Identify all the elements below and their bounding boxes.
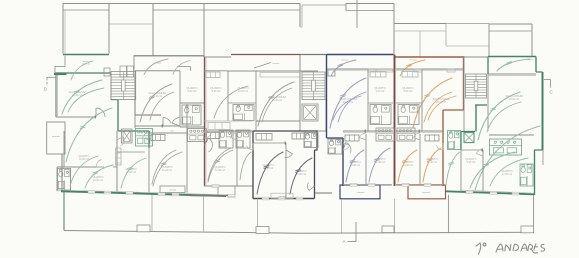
door sala unit2 left — [163, 117, 171, 126]
orange living — [432, 97, 449, 104]
dark unit outline — [253, 130, 299, 132]
door orange entry — [436, 143, 443, 150]
elevator right core — [464, 133, 474, 143]
brown top interior wall — [228, 70, 318, 72]
sweep dark2 — [290, 158, 312, 194]
svg-text:9.60 m2: 9.60 m2 — [404, 90, 413, 93]
door dark unit 1 — [285, 150, 293, 158]
orange corridor wall — [396, 130, 443, 132]
blue unit outline — [326, 55, 328, 139]
door brown hall — [205, 138, 213, 152]
handwritten floor note "1º ANDARES" — [476, 243, 545, 254]
patio left green edge — [63, 192, 65, 231]
sweep quarto1 — [85, 165, 113, 188]
stairwell left core — [111, 72, 136, 100]
right patio left edge — [447, 195, 449, 233]
blue top interior wall with sills — [327, 68, 393, 70]
green boundary at core — [475, 105, 477, 132]
door arcs corridor — [142, 133, 149, 140]
box left of unit2 varanda — [120, 66, 127, 77]
elevator left core — [121, 129, 132, 143]
center core top edge — [300, 54, 327, 56]
sweep blue q2 — [369, 148, 390, 182]
terrace middle inset box — [109, 23, 153, 25]
dark unit bottom fixtures — [292, 133, 305, 139]
right green bottom wall — [446, 191, 534, 194]
kitchen green unit — [136, 129, 153, 147]
green unit lower boundary — [61, 191, 226, 196]
sweep orange q1 — [398, 150, 417, 182]
sweep long green right — [475, 126, 540, 190]
sweep green small room — [446, 152, 460, 185]
unit2 terrace edge — [134, 55, 205, 57]
sweep quarto green right — [470, 152, 515, 188]
elevator center core — [302, 104, 318, 121]
wall x149 lower — [148, 148, 150, 193]
orange laundry box — [408, 185, 446, 199]
bathroom unit2 — [182, 105, 201, 125]
terrace box x302-346 — [302, 4, 346, 6]
right green interior — [488, 73, 536, 75]
sweep orange terrace — [400, 60, 425, 76]
bathroom right green 2 — [520, 164, 533, 186]
svg-text:terraco: terraco — [410, 59, 418, 62]
brown corridor north wall — [204, 120, 253, 122]
green unit terrace edge — [63, 54, 109, 56]
svg-text:9.90 m2: 9.90 m2 — [212, 90, 221, 93]
right green unit top edge — [488, 56, 536, 58]
svg-text:varanda: varanda — [52, 135, 61, 138]
patio bottom line — [64, 231, 534, 234]
sweep quarto unit2 — [153, 152, 182, 186]
bathroom blue lower — [328, 139, 342, 154]
unit2 varanda step — [177, 66, 191, 68]
svg-text:10.80 m2: 10.80 m2 — [296, 173, 307, 176]
door dark entry — [246, 143, 253, 150]
right patio right edge — [533, 195, 535, 232]
left wall lower — [56, 167, 58, 191]
dark L wall near kitchen — [134, 97, 136, 115]
sweep quarto brown — [208, 150, 233, 182]
orange unit outline — [463, 57, 465, 110]
svg-text:terraco: terraco — [527, 58, 534, 61]
right green unit outline — [487, 57, 489, 75]
window sill gaps bottom walls — [88, 191, 95, 194]
bathroom dark unit — [304, 133, 318, 148]
wall thickness parallels — [327, 69, 393, 71]
varanda door box — [104, 68, 110, 76]
bathroom blue — [370, 105, 391, 125]
door dark unit 2 — [307, 183, 314, 191]
brown unit top edge — [231, 54, 300, 56]
kitchen blue — [376, 128, 394, 141]
dark unit interior — [285, 143, 287, 199]
living room green unit — [68, 90, 85, 97]
terrace verticals — [62, 4, 64, 54]
right terrace lines — [394, 23, 446, 25]
svg-text:10.90 m2: 10.90 m2 — [403, 164, 414, 167]
brown unit terrace strip — [204, 56, 231, 58]
patio dividers — [151, 195, 153, 231]
dark unit laundry box — [271, 193, 293, 198]
left lower wall — [61, 154, 63, 191]
blue living room — [339, 97, 356, 104]
svg-text:11.40 m2: 11.40 m2 — [375, 161, 385, 164]
living bottom wall — [56, 116, 96, 118]
label leader brown varanda — [254, 63, 271, 69]
sweep hall green — [66, 108, 112, 162]
kitchen right green — [490, 139, 522, 155]
svg-text:estendal: estendal — [169, 189, 177, 192]
sweep sala blue — [330, 78, 366, 128]
right green terrace sweep — [497, 59, 530, 71]
door blue hall — [343, 143, 351, 153]
sweep brown upper rooms — [214, 86, 248, 118]
blue corridor wall — [343, 130, 393, 132]
corridor wall brown — [204, 130, 253, 132]
door living — [96, 108, 105, 117]
sweep sala green right — [478, 92, 520, 140]
sweep sala brown — [258, 82, 294, 126]
svg-text:10.50 m2: 10.50 m2 — [93, 179, 104, 182]
svg-text:estendal: estendal — [357, 191, 365, 194]
svg-text:D: D — [44, 87, 48, 92]
right building edge — [542, 150, 544, 165]
svg-text:A: A — [342, 239, 346, 244]
svg-text:10.20 m2: 10.20 m2 — [238, 90, 249, 93]
core top edge — [465, 56, 489, 58]
terrace box x346-394 — [346, 3, 394, 5]
unit2 corridor + kitchen — [188, 129, 207, 142]
sweep sala unit2 — [140, 84, 172, 122]
sill band brown living top — [260, 73, 300, 78]
left wall upper room — [63, 131, 65, 167]
svg-text:terraco: terraco — [341, 59, 349, 62]
brown unit outline — [204, 57, 206, 186]
door sala unit2 right — [172, 118, 180, 127]
bathroom brown — [233, 105, 254, 121]
closet blue — [345, 135, 359, 141]
sweep sala green — [62, 80, 102, 114]
svg-text:hall: hall — [171, 131, 174, 133]
sweep unit2 varanda 1 — [144, 59, 168, 75]
closet unit2 — [151, 135, 165, 141]
door brown entry — [205, 131, 212, 138]
bathroom orange — [398, 105, 419, 125]
svg-text:9.90 m2: 9.90 m2 — [467, 161, 476, 164]
bath stack brown 2 — [236, 130, 250, 148]
sweep unit2 varanda 2 — [173, 61, 190, 75]
kitchen orange — [397, 128, 415, 141]
closet brown q1 — [206, 72, 220, 78]
green hall wall — [117, 100, 119, 131]
sweep blue q1 — [346, 150, 364, 182]
sweep orange q2 — [423, 148, 441, 182]
bathroom green unit — [58, 169, 71, 191]
corridor cabinets brown unit — [208, 123, 230, 130]
laundry box unit2 — [160, 186, 185, 193]
sweep blue terrace — [331, 60, 356, 76]
blue/orange party wall — [394, 55, 396, 187]
blue laundry box — [340, 185, 380, 199]
varanda west wall upper — [64, 56, 66, 67]
orange unit top edge — [395, 56, 465, 58]
closet orange — [425, 135, 439, 141]
second sweeps living rooms — [68, 88, 104, 112]
laundry box brown — [218, 186, 235, 195]
svg-text:11.20 m2: 11.20 m2 — [162, 169, 172, 172]
svg-text:C: C — [549, 89, 553, 94]
closet blue q-top — [370, 72, 386, 78]
door quarto2 — [96, 160, 104, 168]
green corner thick — [54, 73, 67, 75]
svg-text:terraco: terraco — [273, 62, 281, 65]
closet orange q-top — [402, 72, 418, 78]
door blue entry — [343, 143, 350, 150]
bath stack brown 1 — [219, 130, 233, 148]
terrace band top double lines — [63, 3, 300, 5]
closet green q1 vertical — [116, 148, 122, 165]
closet brown — [206, 133, 220, 139]
svg-text:11.50 m2: 11.50 m2 — [215, 169, 225, 172]
svg-text:estendal: estendal — [422, 191, 430, 194]
unit2 walls — [135, 70, 180, 72]
extra bedroom sweeps — [70, 156, 98, 186]
svg-text:10.90 m2: 10.90 m2 — [350, 164, 361, 167]
blue unit top edge — [327, 54, 394, 56]
svg-text:9.80 m2: 9.80 m2 — [188, 90, 197, 93]
sweep brown second — [262, 88, 292, 122]
svg-text:12.30 m2: 12.30 m2 — [502, 173, 513, 176]
wall y167 — [57, 166, 104, 168]
sweep unit2 second — [150, 92, 174, 120]
section line top (A) — [356, 0, 358, 28]
closet dark unit — [256, 134, 272, 141]
orange top interior wall — [396, 68, 463, 70]
green unit outline — [55, 72, 111, 74]
svg-text:21.60 m2: 21.60 m2 — [509, 98, 520, 101]
door jamb stubs — [94, 116, 96, 119]
sweep dark1 — [257, 152, 283, 194]
bathroom right green 1 — [448, 131, 461, 150]
sweep sala orange — [413, 78, 452, 128]
wall stub right of dark unit — [315, 192, 333, 194]
left balcony box — [47, 122, 65, 154]
stairwell center core — [302, 72, 325, 100]
svg-text:9.60 m2: 9.60 m2 — [376, 90, 385, 93]
sweep varanda green — [71, 61, 93, 80]
stairwell right core — [466, 74, 487, 98]
patio notches — [137, 225, 150, 232]
sweep quarto2 — [121, 158, 146, 188]
